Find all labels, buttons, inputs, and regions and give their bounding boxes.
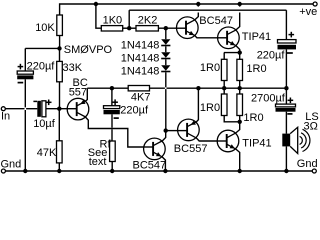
- node B input base junction: [57, 107, 61, 111]
- wire Q3 emitter to Q5 base: [195, 36, 218, 38]
- svg-text:1R0: 1R0: [200, 62, 220, 74]
- label 1R0 lower right: [243, 112, 263, 124]
- label - 220uf mid: [114, 117, 119, 119]
- wire +ve supply rail: [60, 4, 314, 15]
- svg-text:1K0: 1K0: [103, 15, 123, 27]
- wire Q2 collector to Q4 base node: [162, 131, 166, 142]
- svg-text:557: 557: [69, 86, 87, 98]
- svg-text:+ve: +ve: [299, 6, 317, 18]
- terminal In: [1, 107, 5, 111]
- wire node A to 220uf left: [25, 48, 59, 71]
- wire bootstrap link from 1K0/2K2 junction to 220uf top: [129, 10, 286, 39]
- loudspeaker LS horn: [290, 127, 298, 153]
- node 4K7 left junction: [110, 86, 114, 90]
- svg-text:BC557: BC557: [174, 143, 208, 155]
- resistor 47K: [57, 109, 63, 171]
- label - 10uf: [33, 101, 37, 103]
- capacitor 2700uf minus plate: [276, 108, 296, 112]
- label 220uf bootstrap: [257, 50, 286, 62]
- svg-text:Gnd: Gnd: [297, 158, 318, 170]
- svg-text:3Ω: 3Ω: [304, 120, 318, 132]
- transistor Q2 BC547 NPN voltage amplifier: [144, 138, 166, 160]
- label - 220uf bootstrap: [287, 52, 293, 54]
- label - 220uf left: [18, 82, 24, 84]
- wire rail to 220uf mid: [111, 88, 113, 106]
- capacitor 10uf minus plate: [37, 101, 41, 117]
- resistor 33K: [57, 48, 63, 108]
- resistor 1R0 lower left: [221, 88, 239, 122]
- label Gnd right: [297, 158, 318, 170]
- node Q5 emitter junction: [238, 50, 242, 54]
- wire speaker to ground rail: [285, 146, 287, 171]
- wire 1K0 to 2K2: [123, 27, 136, 29]
- svg-text:TIP41: TIP41: [242, 31, 271, 43]
- label + 220uf mid: [112, 99, 118, 105]
- node output to 2700uf junction: [284, 86, 288, 90]
- label 10K: [35, 22, 55, 34]
- label BC547 Q3: [199, 15, 233, 27]
- diode D3 1N4148: [161, 65, 170, 72]
- loudspeaker sound waves: [300, 129, 310, 151]
- node 220uf left on ground: [23, 169, 27, 173]
- label +ve: [299, 6, 317, 18]
- wire Q2 emitter to ground rail: [162, 157, 165, 171]
- svg-text:BC547: BC547: [133, 160, 167, 172]
- transistor Q4 BC557 PNP lower driver: [178, 119, 200, 141]
- wire Q5 collector to rail: [236, 4, 240, 30]
- svg-text:1N4148: 1N4148: [121, 66, 160, 78]
- wire Q3 collector to rail: [195, 4, 198, 20]
- resistor 4K7: [128, 86, 149, 91]
- wire diode column top: [165, 28, 167, 39]
- wire diode column to Q4 base node: [165, 72, 167, 130]
- svg-text:Gnd: Gnd: [1, 158, 22, 170]
- transistor Q6 TIP41 NPN lower output: [217, 130, 239, 152]
- wire 2K2 to Q3 base: [158, 27, 176, 29]
- node Q2 emitter on ground: [163, 169, 167, 173]
- label + 2700uf: [288, 98, 294, 104]
- label Gnd left: [1, 158, 22, 170]
- wire 10uf to node B: [46, 108, 67, 110]
- svg-text:10µf: 10µf: [33, 118, 56, 130]
- capacitor 10uf plus plate: [42, 101, 46, 117]
- capacitor 220uf input decoupling plus plate: [17, 71, 33, 74]
- label 1N4148 D1: [121, 39, 160, 51]
- capacitor 2700uf plus plate: [276, 104, 296, 107]
- node 1R0 right column on rail: [238, 86, 242, 90]
- svg-text:1R0: 1R0: [200, 102, 220, 114]
- diode D1 1N4148: [161, 39, 170, 52]
- svg-text:220µf: 220µf: [27, 60, 56, 72]
- wire 220uf mid to Rf: [111, 114, 113, 141]
- label + 220uf left: [18, 60, 56, 72]
- svg-text:4K7: 4K7: [131, 91, 151, 103]
- label 10uf: [33, 118, 56, 130]
- wire ground rail: [3, 170, 312, 172]
- svg-text:33K: 33K: [63, 62, 83, 74]
- label Rf See text: [88, 138, 112, 168]
- label 1R0 lower left: [200, 102, 220, 114]
- capacitor 220uf feedback minus plate: [104, 110, 120, 114]
- wire Q4 collector to Q6 base: [196, 138, 217, 141]
- label 2700uf: [251, 92, 286, 104]
- svg-text:TIP41: TIP41: [242, 137, 271, 149]
- label TIP41 Q5: [242, 31, 271, 43]
- terminal Gnd left: [1, 169, 5, 173]
- wire Q1 emitter riser to feedback rail: [85, 88, 87, 101]
- svg-text:1R0: 1R0: [246, 63, 266, 75]
- wire 1K0 riser: [96, 4, 101, 28]
- label - 2700uf: [287, 113, 292, 115]
- wire 2700uf to speaker: [285, 112, 287, 134]
- svg-text:1N4148: 1N4148: [121, 53, 160, 65]
- wire output feedback rail: [87, 87, 286, 89]
- wire Q4 emitter riser to rail: [196, 88, 198, 122]
- label BC 557 Q1: [69, 77, 88, 98]
- svg-text:In: In: [1, 110, 10, 122]
- node junction TIP41 collector on +ve rail: [238, 2, 242, 6]
- svg-text:220µf: 220µf: [120, 105, 149, 117]
- label 1K0: [103, 15, 123, 27]
- wire 220uf left to ground rail: [24, 79, 26, 171]
- transistor Q1 BC557 input PNP: [67, 98, 89, 120]
- node 1R0 left column on rail: [222, 86, 226, 90]
- node 47K on ground: [57, 169, 61, 173]
- label + 10uf: [46, 100, 52, 106]
- svg-text:47K: 47K: [37, 147, 57, 159]
- label 1R0 upper left: [200, 62, 220, 74]
- svg-text:text: text: [89, 156, 107, 168]
- label BC547 Q2: [133, 160, 167, 172]
- svg-text:2700µf: 2700µf: [251, 92, 286, 104]
- svg-text:220µf: 220µf: [257, 50, 286, 62]
- node Q4 emitter junction on rail: [196, 86, 200, 90]
- node 1K0 2K2 junction: [127, 26, 131, 30]
- label 47K: [37, 147, 57, 159]
- capacitor 220uf input decoupling minus plate: [17, 75, 33, 79]
- node junction BC547 collector on +ve rail: [196, 2, 200, 6]
- resistor 10K: [57, 15, 63, 48]
- svg-text:BC547: BC547: [199, 15, 233, 27]
- svg-text:10K: 10K: [35, 22, 55, 34]
- wire bootstrap cap to output rail: [285, 49, 287, 88]
- wire Q5 emitter to 1R0 node: [236, 46, 240, 53]
- terminal Gnd right: [312, 169, 316, 173]
- wire Q1 collector to Q2 base: [85, 117, 143, 147]
- label TIP41 Q6: [242, 137, 271, 149]
- resistor 1R0 upper right: [237, 59, 243, 88]
- node 2K2 diode junction: [164, 26, 168, 30]
- resistor Rf: [110, 141, 116, 171]
- label 3 ohm: [304, 120, 318, 132]
- capacitor 220uf feedback plus plate: [104, 106, 120, 109]
- wire emitter node to 1R0 pair: [224, 53, 240, 60]
- capacitor 220uf bootstrap plus plate: [278, 40, 297, 43]
- wire In to 10uf: [5, 108, 37, 110]
- diode D2 1N4148: [161, 52, 170, 65]
- label 1R0 upper right: [246, 63, 266, 75]
- wire Q6 collector to node: [236, 122, 240, 133]
- node Q4 base junction: [164, 128, 168, 132]
- label 4K7: [131, 91, 151, 103]
- resistor 2K2: [136, 26, 158, 31]
- capacitor 220uf bootstrap minus plate: [278, 45, 297, 50]
- node Q6 emitter on ground: [238, 169, 242, 173]
- wire Q6 emitter to ground rail: [236, 149, 240, 171]
- node Q6 collector junction: [238, 120, 242, 124]
- label BC557 Q4: [174, 143, 208, 155]
- label 1N4148 D3: [121, 66, 160, 78]
- transistor Q5 TIP41 NPN upper output: [218, 27, 240, 49]
- loudspeaker LS magnet: [282, 134, 290, 147]
- resistor 1R0 upper left: [221, 59, 227, 88]
- resistor 1R0 lower right: [237, 88, 243, 122]
- terminal +ve: [313, 2, 317, 6]
- node junction 1K0 riser on +ve rail: [94, 2, 98, 6]
- svg-text:SMØVPO: SMØVPO: [64, 44, 113, 56]
- label In: [1, 110, 10, 122]
- node A bias junction: [57, 46, 61, 50]
- node speaker on ground: [284, 169, 288, 173]
- resistor 1K0: [101, 26, 122, 31]
- label SM0VPO: [64, 44, 113, 56]
- label 2K2: [138, 15, 158, 27]
- svg-text:2K2: 2K2: [138, 15, 158, 27]
- label 1N4148 D2: [121, 53, 160, 65]
- node Rf on ground: [110, 169, 114, 173]
- label + 220uf bootstrap: [289, 32, 295, 38]
- svg-text:1R0: 1R0: [243, 112, 263, 124]
- wire Q4 base: [166, 130, 178, 132]
- wire rail to 2700uf: [285, 88, 287, 104]
- label LS: [305, 111, 318, 123]
- svg-text:1N4148: 1N4148: [121, 39, 160, 51]
- transistor Q3 BC547 NPN upper driver: [177, 17, 199, 39]
- label 33K: [63, 62, 83, 74]
- label 220uf mid: [120, 105, 149, 117]
